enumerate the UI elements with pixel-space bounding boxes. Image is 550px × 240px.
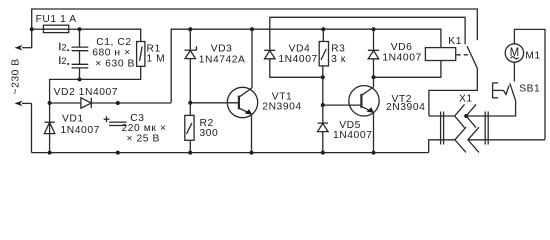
label VD3 1N4742A bbox=[199, 44, 246, 66]
wire: R3/VD5 column bbox=[322, 66, 324, 105]
node: VT2 collector junction bbox=[372, 75, 376, 79]
node: VD1 top junction bbox=[48, 101, 52, 105]
transistor VT2 2N3904 bbox=[349, 77, 379, 152]
wire: X1 lower row right bbox=[468, 139, 545, 141]
wire: VD6 top lead bbox=[373, 29, 375, 50]
connector X1 lower contact pair bbox=[455, 127, 479, 152]
svg-text:1N4007: 1N4007 bbox=[333, 130, 372, 141]
wire: fuse branch from input node bbox=[32, 28, 44, 30]
wire: X1 upper row right to SB1 bbox=[466, 101, 515, 116]
wire: bottom ground rail bbox=[32, 152, 429, 154]
svg-text:M1: M1 bbox=[525, 50, 540, 61]
diode VD1 bbox=[44, 122, 54, 133]
connector X1 upper contact pair bbox=[455, 104, 476, 127]
diode VD4 bbox=[264, 50, 275, 59]
wire: mains input lower arrow ~230V bbox=[22, 102, 32, 104]
connector X1 housing lines left bbox=[441, 112, 444, 145]
wire: second rail (VD4 cathode to K1 NC contact) bbox=[270, 17, 465, 50]
node: C3 top junction bbox=[116, 101, 120, 105]
svg-text:× 25 В: × 25 В bbox=[127, 134, 160, 145]
label VD4 1N4007 bbox=[278, 44, 317, 65]
node: VD1 bottom junction bbox=[48, 151, 52, 155]
wire: C1C2 bottom rail to VD1 node bbox=[50, 66, 141, 152]
wire: X1 upper row left bbox=[429, 115, 455, 117]
node: R2 bottom junction bbox=[188, 151, 192, 155]
svg-text:VD6: VD6 bbox=[391, 42, 413, 53]
pin mark 2 of C1 bbox=[60, 42, 69, 53]
zener diode VD3 bbox=[185, 46, 197, 58]
svg-text:1N4007: 1N4007 bbox=[278, 54, 317, 65]
svg-text:× 630 В: × 630 В bbox=[95, 59, 135, 70]
node: C1C2 bottom junction bbox=[78, 77, 82, 81]
wire: VD5 top lead bbox=[322, 105, 324, 123]
svg-text:2N3904: 2N3904 bbox=[386, 102, 425, 113]
node: X1 upper pin junction bbox=[464, 114, 468, 118]
wire: R2 top lead bbox=[189, 103, 191, 116]
node: VT1 collector top junction bbox=[250, 27, 254, 31]
svg-text:1 М: 1 М bbox=[147, 53, 166, 64]
wire: VD3 bottom lead bbox=[189, 59, 191, 103]
capacitor C1 bbox=[72, 29, 89, 64]
capacitor C2 bbox=[72, 64, 89, 79]
wire: mains input upper arrow ~230V bbox=[22, 47, 32, 49]
wire: top mains rail L bbox=[32, 9, 478, 48]
wire: bottom rail step up to X1 lower row bbox=[429, 140, 455, 153]
diode VD2 bbox=[81, 98, 91, 108]
svg-text:VT1: VT1 bbox=[272, 91, 293, 102]
node: VD5 bottom junction bbox=[321, 151, 325, 155]
node: VT1 emitter bottom junction bbox=[250, 151, 254, 155]
capacitor C3 polarized bbox=[104, 116, 127, 125]
relay coil K1 bbox=[425, 48, 455, 61]
wire: R3 top lead bbox=[322, 29, 324, 41]
svg-text:300: 300 bbox=[200, 128, 219, 139]
wire: VD2 cathode to riser bbox=[91, 102, 171, 104]
resistor R2 bbox=[185, 115, 194, 140]
relay contact blade K1 bbox=[429, 46, 477, 116]
svg-text:VD2 1N4007: VD2 1N4007 bbox=[54, 87, 118, 98]
wire: VD6 anode to K1 coil rail bbox=[374, 59, 441, 77]
svg-text:VD3: VD3 bbox=[211, 44, 233, 55]
resistor R1 bbox=[137, 42, 145, 67]
label VT2 2N3904 bbox=[386, 94, 425, 113]
node: VD3-R2 junction bbox=[188, 101, 192, 105]
node: VT2 emitter bottom junction bbox=[372, 151, 376, 155]
svg-text:220 мк ×: 220 мк × bbox=[122, 123, 167, 134]
wire: VT2 base wire bbox=[323, 104, 362, 106]
svg-text:1N4007: 1N4007 bbox=[382, 53, 421, 64]
label VT1 2N3904 bbox=[262, 91, 301, 112]
wire: M1 to SB1 bbox=[513, 62, 515, 81]
svg-text:C1, C2: C1, C2 bbox=[96, 37, 131, 48]
node: C3 bottom junction bbox=[116, 151, 120, 155]
connector X1 housing lines right bbox=[485, 112, 488, 145]
wire: C1C2 node to R1 top bbox=[80, 29, 141, 41]
label R1 1M bbox=[147, 43, 166, 64]
wire: VT1 base wire bbox=[190, 102, 239, 104]
relay K1 mechanical dashed link bbox=[457, 54, 472, 56]
svg-text:1N4007: 1N4007 bbox=[61, 125, 100, 136]
svg-text:K1: K1 bbox=[448, 36, 462, 47]
diode VD5 bbox=[318, 123, 329, 153]
motor M1 bbox=[505, 44, 523, 62]
pin mark 2 of C2 bbox=[60, 56, 69, 67]
label VD5 1N4007 bbox=[333, 120, 372, 141]
svg-text:FU1 1 A: FU1 1 A bbox=[36, 14, 77, 25]
wire: VD2 anode wire bbox=[50, 102, 81, 104]
arrowhead upper input bbox=[15, 45, 23, 51]
svg-text:~230 В: ~230 В bbox=[11, 58, 22, 94]
transistor VT1 2N3904 bbox=[227, 29, 257, 152]
label C1, C2 value bbox=[92, 37, 135, 70]
fuse FU1 bbox=[43, 25, 68, 32]
label R3 3k bbox=[331, 44, 346, 65]
node: R3 bottom junction bbox=[321, 75, 325, 79]
label R2 300 bbox=[200, 118, 219, 139]
svg-text:X1: X1 bbox=[459, 94, 473, 105]
wire: VD4 anode to R3 bottom rail bbox=[270, 59, 323, 77]
node: VD3 top junction bbox=[188, 27, 192, 31]
wire: fuse to C1C2 node bbox=[69, 28, 80, 30]
node: R3 top junction bbox=[321, 27, 325, 31]
resistor R3 bbox=[319, 42, 328, 66]
arrowhead lower input bbox=[15, 101, 23, 107]
node: VT2 base junction bbox=[321, 103, 325, 107]
svg-text:2: 2 bbox=[61, 56, 66, 67]
diode VD6 bbox=[368, 50, 379, 59]
svg-text:SB1: SB1 bbox=[519, 84, 540, 95]
svg-text:1N4742A: 1N4742A bbox=[199, 55, 246, 66]
pushbutton SB1 bbox=[493, 83, 516, 101]
svg-text:2: 2 bbox=[61, 42, 66, 53]
label VD1 1N4007 bbox=[61, 114, 100, 136]
svg-text:2N3904: 2N3904 bbox=[262, 102, 301, 113]
node: C1C2 top junction bbox=[78, 27, 82, 31]
node: input junction at fuse bbox=[30, 27, 34, 31]
svg-text:VD1: VD1 bbox=[62, 114, 84, 125]
svg-text:680 н ×: 680 н × bbox=[92, 48, 130, 59]
wire: DC+ top rail bbox=[171, 29, 441, 103]
label C3 value bbox=[122, 113, 167, 145]
wire: R2 bottom lead bbox=[189, 140, 191, 152]
wire: M1 branch top loop bbox=[514, 29, 545, 139]
svg-text:3 к: 3 к bbox=[331, 54, 346, 65]
node: VD6 top junction bbox=[372, 27, 376, 31]
label VD6 1N4007 bbox=[382, 42, 421, 64]
wire: VD3 top lead bbox=[189, 29, 191, 50]
wire: left return riser to bottom rail bbox=[31, 103, 33, 152]
